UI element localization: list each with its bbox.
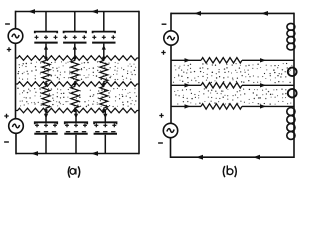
(b) row 3 wire, left part — [171, 105, 201, 107]
wire: (a) left bus middle segment — [15, 43, 17, 119]
AC source (a) bottom — [9, 119, 24, 134]
junction dots on chain 2 of (a) — [73, 56, 76, 59]
wire: (b) left bus lower segment — [170, 138, 172, 158]
stipple band B1 (b) — [173, 63, 292, 83]
arrow on (b) top bus, right — [261, 11, 268, 16]
capacitor bank bottom 1 of (a): minus charges — [36, 131, 40, 133]
plus label of (b) top source — [161, 50, 165, 54]
arrow on (a) top bus, right — [91, 9, 98, 14]
capacitor bank top 2 of (a): stem to row 1 with up arrow — [74, 44, 76, 58]
resistive medium boundary row 2 (middle) of (a), sawtooth — [16, 82, 140, 87]
wire: (a) right bus — [138, 11, 140, 155]
arrow on (a) bottom bus, left — [31, 151, 38, 156]
capacitor bank bottom 2 of (a): stem from row 3 with down arrow — [75, 111, 77, 122]
wire: (b) left bus middle segment — [170, 45, 172, 123]
arrows on (b) row 3 — [185, 104, 191, 108]
vertical resistor chain 3 of (a), rows 1-2 — [100, 58, 108, 84]
AC source (b) bottom — [163, 123, 177, 137]
(b) row 3 wire, right part — [242, 105, 294, 107]
vertical resistor chain 3 of (a), rows 2-3 — [100, 84, 108, 111]
plus label of (a) top source — [7, 47, 11, 51]
vertical resistor chain 2 of (a), rows 2-3 — [71, 84, 79, 111]
(b) row 2 wire, right part — [242, 84, 294, 86]
capacitor bank bottom 3 of (a): lower plate — [94, 133, 117, 135]
stipple band A2 (a) — [17, 88, 137, 108]
(b) row 2 wire, left part — [171, 84, 201, 86]
capacitor bank bottom 2 of (a): stem to bottom bus — [75, 135, 77, 154]
wire: (b) bottom bus — [171, 156, 295, 158]
capacitor bank bottom 2 of (a): plus charges — [65, 123, 69, 127]
AC source (b) top — [164, 31, 178, 45]
arrow on (b) bottom bus, left — [196, 155, 203, 160]
capacitor bank top 3 of (a): lower plate — [92, 42, 115, 44]
resistor on (b) row 2 — [201, 83, 242, 88]
resistor on (b) row 3 — [201, 104, 242, 109]
capacitor bank top 3 of (a): upper plate with end ticks — [93, 32, 115, 34]
inductor middle loop between rows 2-3 on (b) right bus — [288, 89, 297, 98]
(b) row 1 wire, right part — [242, 59, 294, 61]
vertical resistor chain 2 of (a), rows 1-2 — [71, 58, 79, 84]
capacitor bank top 1 of (a): lower plate — [34, 42, 57, 44]
label (a) — [68, 166, 79, 177]
capacitor bank bottom 1 of (a): upper plate with end ticks — [35, 122, 57, 124]
arrow on (b) top bus, left — [194, 11, 201, 16]
capacitor bank top 2 of (a): plus charges — [63, 35, 67, 39]
junction dots on chain 3 of (a) — [102, 56, 105, 59]
capacitor bank bottom 3 of (a): minus charges — [95, 131, 99, 133]
capacitor bank bottom 1 of (a): plus charges — [35, 123, 39, 127]
minus label of (b) bottom source — [158, 142, 163, 144]
plus label of (b) bottom source — [159, 113, 163, 117]
capacitor bank bottom 3 of (a): upper plate with end ticks — [94, 122, 116, 124]
capacitor bank top 3 of (a): plus charges — [92, 35, 96, 39]
capacitor bank top 1 of (a): upper plate with end ticks — [35, 32, 57, 34]
capacitor bank top 1 of (a): plus charges — [35, 35, 39, 39]
capacitor bank bottom 1 of (a): stem to bottom bus — [45, 135, 47, 154]
capacitor bank bottom 3 of (a): stem from row 3 with down arrow — [104, 111, 106, 122]
capacitor bank top 1 of (a): stem to row 1 with up arrow — [45, 44, 47, 58]
AC source (a) top — [8, 29, 23, 44]
inductor middle loop between rows 1-2 on (b) right bus — [288, 68, 297, 77]
resistor on (b) row 1 — [201, 58, 242, 63]
capacitor bank bottom 3 of (a): stem to bottom bus — [104, 135, 106, 154]
capacitor bank top 3 of (a): stem from top bus — [103, 12, 105, 32]
capacitor bank bottom 2 of (a): lower plate — [64, 133, 87, 135]
wire: (b) left bus upper segment — [170, 13, 172, 31]
stipple band B2 (b) — [174, 88, 292, 105]
wire: (a) bottom bus — [16, 153, 140, 155]
wire: (a) left bus upper segment — [15, 11, 17, 29]
vertical resistor chain 1 of (a), rows 1-2 — [42, 58, 50, 84]
capacitor bank top 2 of (a): stem from top bus — [74, 12, 76, 32]
capacitor bank top 3 of (a): stem to row 1 with up arrow — [103, 44, 105, 58]
resistive medium boundary row 3 (bottom) of (a), sawtooth — [16, 108, 140, 113]
arrows on (b) row 1 — [185, 58, 191, 62]
arrow on (a) top bus, left — [28, 9, 35, 14]
capacitor bank top 1 of (a): stem from top bus — [45, 12, 47, 32]
plus label of (a) bottom source — [4, 114, 8, 118]
minus label of (a) top source — [5, 23, 10, 25]
(b) row 1 wire, left part — [171, 59, 201, 61]
capacitor bank top 2 of (a): upper plate with end ticks — [64, 32, 86, 34]
capacitor bank bottom 1 of (a): stem from row 3 with down arrow — [45, 111, 47, 122]
wire: (b) right bus — [293, 13, 295, 158]
stipple band A1 (a) — [17, 61, 136, 80]
capacitor bank bottom 2 of (a): upper plate with end ticks — [65, 122, 87, 124]
capacitor bank top 2 of (a): lower plate — [63, 42, 86, 44]
capacitor bank bottom 2 of (a): minus charges — [66, 131, 70, 133]
wire: (a) left bus lower segment — [15, 133, 17, 154]
inductor bottom section (4 loops) on (b) right bus — [287, 108, 295, 116]
label (b) — [223, 165, 236, 177]
resistive medium boundary row 1 (top) of (a), sawtooth — [16, 56, 140, 61]
minus label of (b) top source — [162, 23, 167, 25]
inductor top section (4 loops) on (b) right bus — [287, 23, 295, 30]
arrow on (a) bottom bus, right — [91, 151, 98, 156]
vertical resistor chain 1 of (a), rows 2-3 — [42, 84, 50, 111]
arrow on (b) bottom bus, right — [253, 155, 260, 160]
wire: (a) top bus — [16, 11, 140, 13]
minus label of (a) bottom source — [4, 141, 9, 143]
wire: (b) top bus — [171, 12, 294, 14]
capacitor bank bottom 1 of (a): lower plate — [34, 133, 57, 135]
junction dots on chain 1 of (a) — [44, 56, 47, 59]
arrows on (b) row 2 — [185, 83, 191, 87]
capacitor bank bottom 3 of (a): plus charges — [94, 123, 98, 127]
